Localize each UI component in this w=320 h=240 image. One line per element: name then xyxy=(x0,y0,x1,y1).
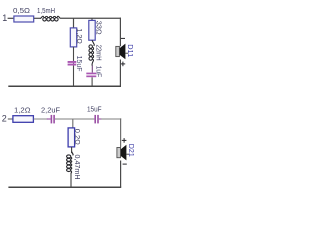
inductor L 1,5mH xyxy=(40,16,60,21)
svg-text:1,2Ω: 1,2Ω xyxy=(14,105,31,114)
svg-text:1uF: 1uF xyxy=(95,66,104,78)
plus mark D21 xyxy=(122,139,127,141)
capacitor C 2,2uF plates xyxy=(51,115,53,124)
right drop wire from top rail to D11 xyxy=(119,18,121,47)
capacitor C 15uF plates xyxy=(73,61,75,66)
resistor R 33 ohm (vertical) xyxy=(89,20,95,40)
speaker D11 cone xyxy=(120,44,126,60)
capacitor C 15uF lead xyxy=(99,118,102,120)
wire down to bottom rail xyxy=(70,173,72,187)
capacitor C 1uF plates xyxy=(86,73,96,75)
svg-text:0,5Ω: 0,5Ω xyxy=(13,6,30,15)
svg-text:1,5mH: 1,5mH xyxy=(37,6,55,15)
speaker D21 terminal tick xyxy=(127,153,130,155)
speaker D21 cone xyxy=(121,145,127,161)
resistor R 0,2 ohm (shunt, vertical) xyxy=(68,128,75,147)
top rail circuit 1 xyxy=(60,17,121,19)
svg-text:2,2uF: 2,2uF xyxy=(41,105,60,114)
wire from terminal 2 xyxy=(8,118,13,120)
wire down to bottom rail xyxy=(73,66,75,87)
speaker D11 terminal tick xyxy=(126,52,129,54)
wire xyxy=(73,47,75,61)
speaker D11 magnet xyxy=(116,46,120,56)
svg-text:D21: D21 xyxy=(127,144,136,157)
capacitor C 2,2uF lead xyxy=(47,118,51,120)
inductor L 22mH (vertical) xyxy=(89,40,94,65)
wire from D11 to bottom rail xyxy=(119,60,121,87)
speaker D21 magnet xyxy=(117,148,121,158)
wire stub to branch 2 xyxy=(91,18,93,20)
inductor L 0,47mH (vertical) xyxy=(67,152,73,174)
wire to junction and cap 15uF xyxy=(55,118,95,120)
capacitor C 15uF plates xyxy=(94,115,96,124)
svg-text:0,2Ω: 0,2Ω xyxy=(73,129,82,145)
bottom rail circuit 1 xyxy=(8,85,121,87)
wire from terminal 1 xyxy=(8,17,14,19)
wire xyxy=(91,66,93,73)
wire xyxy=(34,118,48,120)
plus mark D11 xyxy=(121,63,126,65)
svg-text:33Ω: 33Ω xyxy=(95,21,104,35)
wire to right corner xyxy=(101,118,121,120)
svg-text:D11: D11 xyxy=(126,44,135,57)
bottom rail circuit 2 xyxy=(8,186,121,188)
right drop wire to D21 xyxy=(120,118,122,147)
wire from D21 to bottom rail xyxy=(120,161,122,188)
svg-text:15uF: 15uF xyxy=(75,56,84,72)
wire xyxy=(71,147,73,153)
wire stub to branch 1 xyxy=(73,18,75,28)
resistor R 1,2 ohm (series) xyxy=(13,116,34,123)
svg-text:0,47mH: 0,47mH xyxy=(73,155,82,180)
svg-text:22mH: 22mH xyxy=(95,45,104,61)
svg-text:2: 2 xyxy=(2,114,7,124)
wire xyxy=(34,17,41,19)
svg-text:1: 1 xyxy=(2,13,7,23)
minus mark D21 xyxy=(123,163,127,165)
svg-text:1,2Ω: 1,2Ω xyxy=(75,28,84,44)
wire down to bottom rail xyxy=(91,77,93,86)
resistor R 1,2 ohm (vertical) xyxy=(70,28,76,47)
svg-text:15uF: 15uF xyxy=(87,105,102,114)
minus mark D11 xyxy=(121,37,125,39)
wire stub to shunt branch xyxy=(72,119,74,128)
resistor R 0,5 ohm xyxy=(14,16,34,22)
